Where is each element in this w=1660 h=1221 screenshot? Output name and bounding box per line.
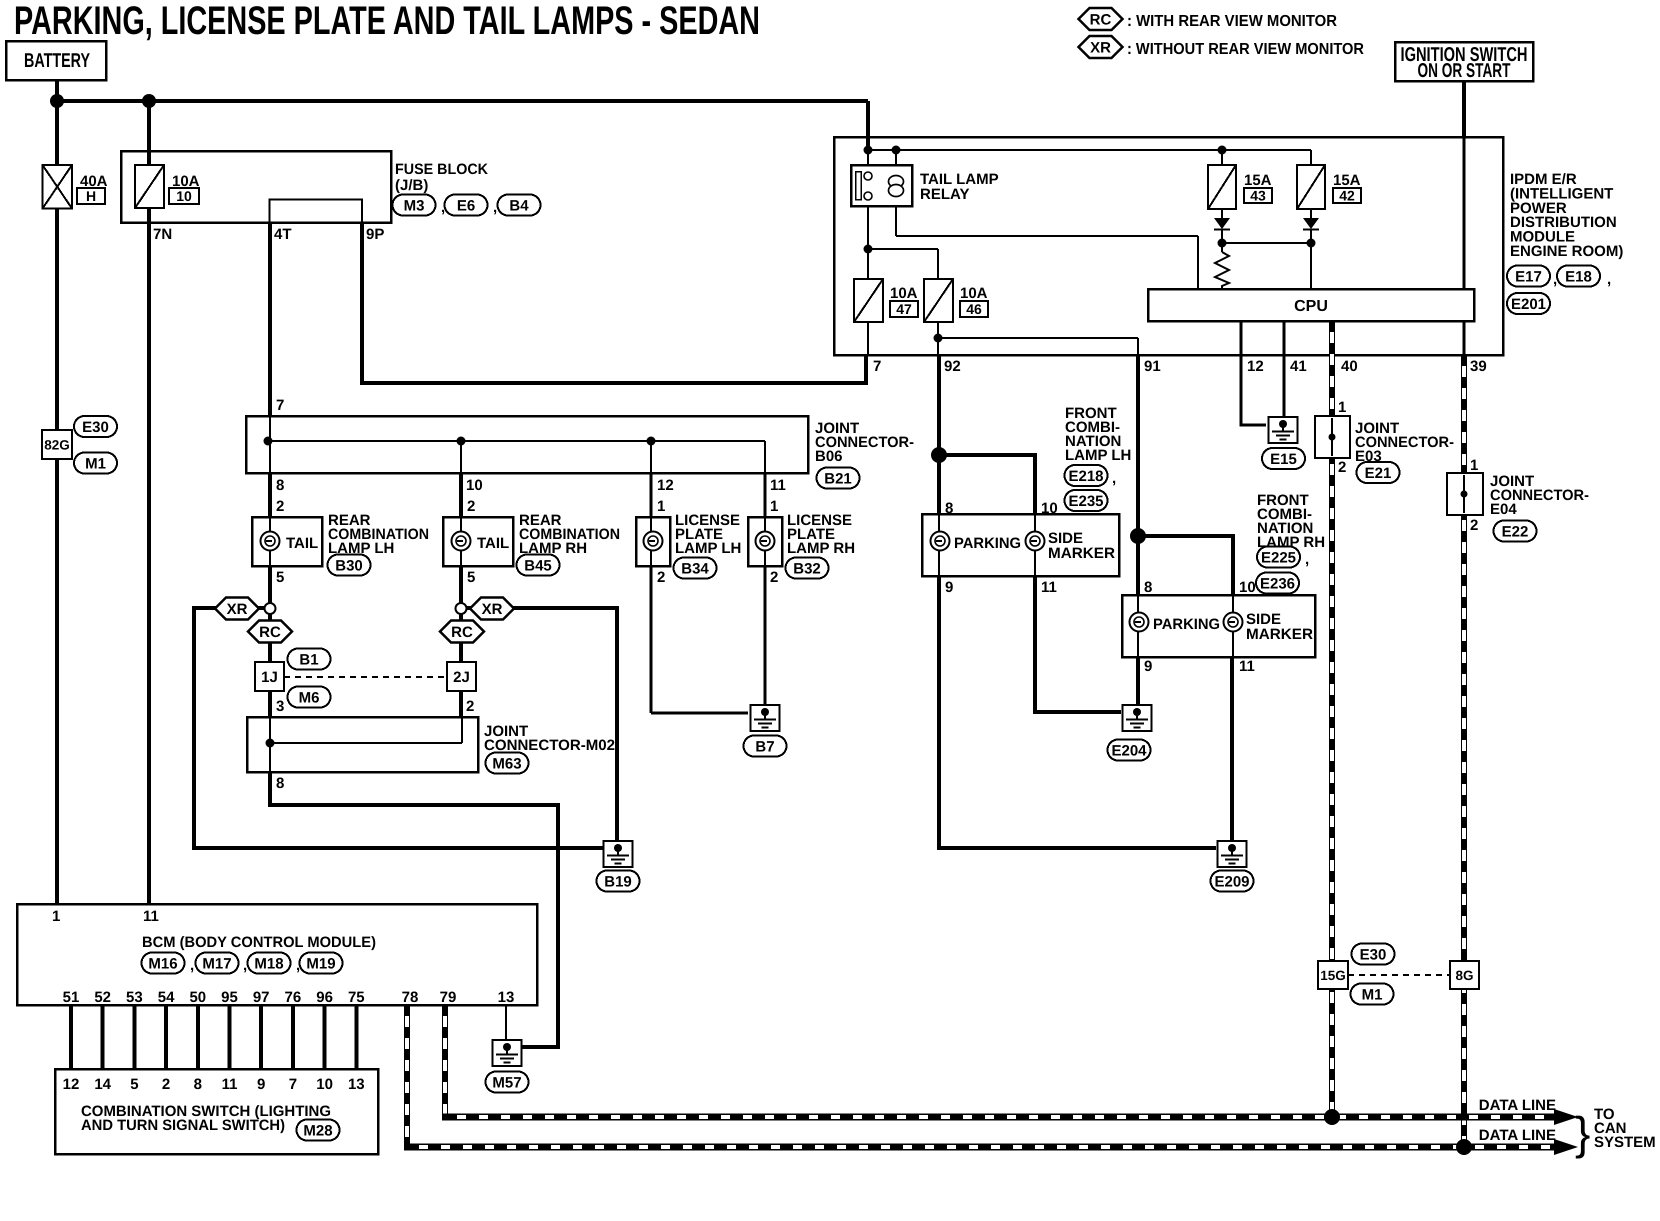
svg-text:13: 13	[498, 989, 515, 1006]
svg-text:E209: E209	[1214, 873, 1249, 890]
svg-text:M17: M17	[202, 955, 231, 972]
svg-text:75: 75	[348, 989, 365, 1006]
svg-text:B19: B19	[604, 873, 632, 890]
svg-text:E22: E22	[1502, 523, 1529, 540]
svg-text:RC: RC	[451, 624, 473, 641]
svg-text:E17: E17	[1515, 268, 1542, 285]
svg-text:11: 11	[1041, 579, 1057, 596]
svg-text:15A: 15A	[1244, 172, 1272, 189]
svg-text:,: ,	[1112, 470, 1116, 487]
svg-text:BCM (BODY CONTROL MODULE): BCM (BODY CONTROL MODULE)	[142, 934, 376, 951]
svg-text:FUSE BLOCK: FUSE BLOCK	[395, 161, 488, 178]
svg-text:M18: M18	[254, 955, 283, 972]
svg-text:,: ,	[1607, 271, 1611, 288]
svg-text:2: 2	[770, 569, 778, 586]
svg-text:E236: E236	[1260, 575, 1295, 592]
svg-text:MARKER: MARKER	[1246, 626, 1313, 643]
svg-text:ENGINE ROOM): ENGINE ROOM)	[1510, 243, 1623, 260]
svg-text:7: 7	[276, 397, 284, 414]
svg-text:,: ,	[190, 957, 194, 974]
svg-text:2: 2	[1338, 459, 1346, 476]
svg-text:47: 47	[896, 301, 912, 317]
svg-text:1: 1	[1338, 399, 1346, 416]
svg-text:CONNECTOR-M02: CONNECTOR-M02	[484, 737, 615, 754]
svg-text:B30: B30	[335, 557, 363, 574]
svg-text:E30: E30	[1360, 946, 1387, 963]
svg-text:97: 97	[253, 989, 270, 1006]
svg-text:,: ,	[441, 199, 445, 216]
svg-text:: WITHOUT REAR VIEW MONITOR: : WITHOUT REAR VIEW MONITOR	[1127, 41, 1364, 58]
svg-text:E201: E201	[1511, 296, 1546, 313]
svg-text:,: ,	[493, 199, 497, 216]
svg-text:LAMP RH: LAMP RH	[787, 540, 855, 557]
svg-text:1: 1	[657, 498, 665, 515]
svg-text:: WITH REAR VIEW MONITOR: : WITH REAR VIEW MONITOR	[1127, 13, 1337, 30]
svg-text:54: 54	[158, 989, 175, 1006]
svg-text:13: 13	[348, 1076, 365, 1093]
svg-text:E15: E15	[1270, 451, 1297, 468]
svg-text:,: ,	[1553, 271, 1557, 288]
svg-text:M1: M1	[85, 455, 106, 472]
svg-text:LAMP LH: LAMP LH	[675, 540, 741, 557]
svg-text:5: 5	[130, 1076, 138, 1093]
svg-text:10A: 10A	[172, 173, 200, 190]
svg-text:10: 10	[1041, 500, 1058, 517]
svg-text:XR: XR	[1090, 39, 1111, 56]
svg-text:82G: 82G	[44, 437, 70, 452]
svg-text:39: 39	[1470, 358, 1487, 375]
svg-text:42: 42	[1339, 188, 1355, 204]
svg-text:LAMP RH: LAMP RH	[519, 540, 587, 557]
svg-text:15A: 15A	[1333, 172, 1361, 189]
svg-text:TAIL: TAIL	[477, 535, 509, 552]
svg-text:91: 91	[1144, 358, 1161, 375]
svg-text:10A: 10A	[960, 285, 988, 302]
svg-text:2: 2	[276, 498, 284, 515]
svg-text:11: 11	[1239, 658, 1255, 675]
svg-text:,: ,	[296, 957, 300, 974]
svg-text:41: 41	[1290, 358, 1307, 375]
svg-text:AND TURN SIGNAL SWITCH): AND TURN SIGNAL SWITCH)	[81, 1117, 285, 1134]
svg-text:LAMP LH: LAMP LH	[1065, 447, 1131, 464]
svg-text:B7: B7	[755, 738, 774, 755]
svg-text:8G: 8G	[1455, 968, 1473, 983]
svg-text:M3: M3	[404, 197, 425, 214]
svg-text:3: 3	[276, 698, 284, 715]
svg-text:40A: 40A	[80, 173, 108, 190]
svg-text:7: 7	[873, 358, 881, 375]
svg-text:8: 8	[1144, 579, 1152, 596]
svg-text:XR: XR	[482, 601, 503, 618]
svg-text:7N: 7N	[153, 226, 172, 243]
svg-text:8: 8	[276, 477, 284, 494]
svg-text:43: 43	[1250, 188, 1266, 204]
svg-text:H: H	[86, 188, 96, 204]
svg-text:14: 14	[94, 1076, 111, 1093]
svg-text:CPU: CPU	[1294, 298, 1328, 315]
svg-text:10: 10	[176, 188, 192, 204]
svg-text:,: ,	[243, 957, 247, 974]
svg-text:9P: 9P	[366, 226, 384, 243]
svg-text:DATA LINE: DATA LINE	[1479, 1127, 1556, 1144]
svg-text:M28: M28	[303, 1122, 332, 1139]
svg-text:7: 7	[289, 1076, 297, 1093]
svg-text:8: 8	[194, 1076, 202, 1093]
svg-text:MARKER: MARKER	[1048, 545, 1115, 562]
svg-text:4T: 4T	[274, 226, 292, 243]
svg-text:,: ,	[1305, 551, 1309, 568]
svg-text:46: 46	[966, 301, 982, 317]
svg-text:1J: 1J	[261, 669, 278, 686]
svg-text:(J/B): (J/B)	[395, 177, 428, 194]
svg-text:9: 9	[257, 1076, 265, 1093]
svg-text:E235: E235	[1068, 493, 1103, 510]
svg-text:BATTERY: BATTERY	[24, 50, 90, 72]
svg-text:E04: E04	[1490, 501, 1517, 518]
svg-text:SYSTEM: SYSTEM	[1594, 1134, 1656, 1151]
svg-text:50: 50	[189, 989, 206, 1006]
svg-text:2: 2	[466, 698, 474, 715]
svg-text:5: 5	[276, 569, 284, 586]
svg-text:52: 52	[94, 989, 111, 1006]
svg-text:PARKING: PARKING	[1153, 616, 1220, 633]
svg-text:2: 2	[1470, 517, 1478, 534]
svg-text:51: 51	[63, 989, 80, 1006]
svg-text:DATA LINE: DATA LINE	[1479, 1097, 1556, 1114]
svg-text:96: 96	[316, 989, 333, 1006]
svg-text:PARKING: PARKING	[954, 535, 1021, 552]
svg-text:2: 2	[467, 498, 475, 515]
svg-text:78: 78	[402, 989, 419, 1006]
svg-text:11: 11	[143, 908, 159, 925]
svg-text:B21: B21	[824, 470, 852, 487]
svg-text:M16: M16	[148, 955, 177, 972]
svg-text:2J: 2J	[453, 669, 470, 686]
svg-text:B4: B4	[509, 197, 529, 214]
svg-text:M6: M6	[299, 689, 320, 706]
svg-text:1: 1	[1470, 457, 1478, 474]
svg-text:10: 10	[1239, 579, 1256, 596]
svg-text:10: 10	[466, 477, 483, 494]
svg-text:E218: E218	[1068, 468, 1103, 485]
svg-text:9: 9	[945, 579, 953, 596]
svg-text:TAIL: TAIL	[286, 535, 318, 552]
svg-text:8: 8	[276, 775, 284, 792]
svg-text:E03: E03	[1355, 448, 1382, 465]
svg-text:B06: B06	[815, 448, 843, 465]
svg-text:ON OR START: ON OR START	[1418, 60, 1511, 82]
svg-text:B32: B32	[793, 560, 821, 577]
svg-text:E6: E6	[457, 197, 475, 214]
svg-text:M1: M1	[1362, 986, 1383, 1003]
svg-text:11: 11	[770, 477, 786, 494]
svg-text:79: 79	[440, 989, 457, 1006]
svg-text:E204: E204	[1111, 742, 1147, 759]
svg-text:12: 12	[657, 477, 674, 494]
svg-text:9: 9	[1144, 658, 1152, 675]
svg-text:RC: RC	[1090, 11, 1112, 28]
svg-text:E225: E225	[1261, 549, 1296, 566]
svg-text:2: 2	[162, 1076, 170, 1093]
svg-text:10: 10	[316, 1076, 333, 1093]
svg-text:11: 11	[222, 1076, 238, 1093]
svg-text:XR: XR	[227, 601, 248, 618]
svg-text:53: 53	[126, 989, 143, 1006]
svg-text:1: 1	[52, 908, 60, 925]
svg-text:5: 5	[467, 569, 475, 586]
svg-text:95: 95	[221, 989, 238, 1006]
svg-text:LAMP RH: LAMP RH	[1257, 534, 1325, 551]
svg-text:RELAY: RELAY	[920, 186, 969, 203]
svg-text:B1: B1	[299, 651, 318, 668]
svg-text:M63: M63	[492, 755, 521, 772]
svg-text:B45: B45	[524, 557, 552, 574]
svg-text:E21: E21	[1365, 465, 1392, 482]
svg-text:76: 76	[285, 989, 302, 1006]
svg-text:10A: 10A	[890, 285, 918, 302]
svg-text:92: 92	[944, 358, 961, 375]
svg-text:E18: E18	[1565, 268, 1592, 285]
svg-text:8: 8	[945, 500, 953, 517]
svg-text:2: 2	[657, 569, 665, 586]
svg-text:15G: 15G	[1320, 968, 1346, 983]
svg-text:40: 40	[1341, 358, 1358, 375]
svg-text:PARKING, LICENSE PLATE AND TAI: PARKING, LICENSE PLATE AND TAIL LAMPS - …	[14, 0, 760, 43]
svg-text:RC: RC	[259, 624, 281, 641]
svg-text:12: 12	[63, 1076, 80, 1093]
svg-text:LAMP LH: LAMP LH	[328, 540, 394, 557]
svg-text:E30: E30	[82, 419, 109, 436]
svg-text:}: }	[1575, 1107, 1590, 1159]
svg-text:12: 12	[1247, 358, 1264, 375]
svg-text:1: 1	[770, 498, 778, 515]
svg-text:B34: B34	[681, 560, 709, 577]
svg-text:M57: M57	[492, 1074, 521, 1091]
svg-text:M19: M19	[306, 955, 335, 972]
